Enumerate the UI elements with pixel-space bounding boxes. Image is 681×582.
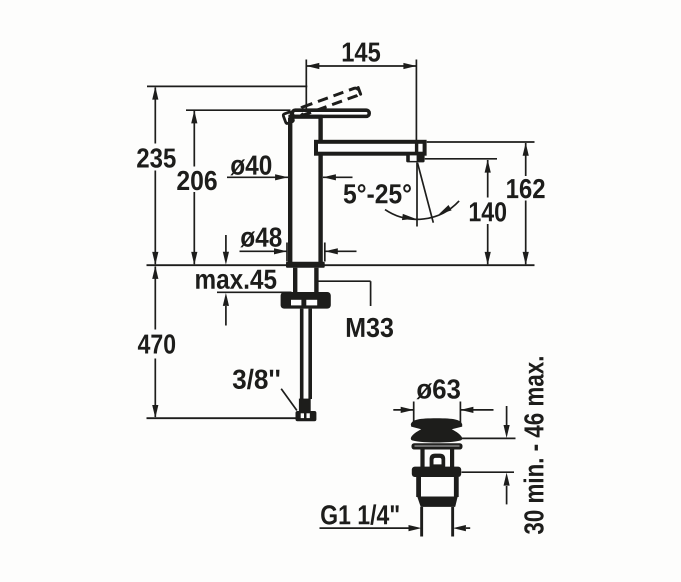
label 145	[343, 43, 380, 62]
dimension 30min-46max line	[504, 406, 510, 504]
label 3/8 inch	[233, 369, 280, 389]
hose end fitting	[299, 399, 311, 412]
3/8 inch leader line	[281, 389, 297, 411]
M33 leader line	[317, 281, 371, 306]
drain flange band	[412, 443, 463, 449]
spout angle vertical reference	[416, 163, 418, 227]
dimension o48 line	[240, 248, 357, 254]
mounting nut	[281, 292, 331, 309]
drain cap (mushroom dome)	[411, 418, 462, 442]
label 470	[138, 334, 175, 353]
label 5-25 degrees	[344, 184, 411, 203]
handle base bar (top of cartridge)	[288, 115, 322, 119]
drain reference line upper (cap underside)	[461, 437, 516, 439]
dimension o63 extension lines	[414, 402, 461, 425]
label o48	[240, 227, 281, 247]
spout end divider	[415, 142, 418, 154]
dimension 470 line	[152, 266, 158, 418]
supply pipe	[300, 309, 312, 399]
label 235	[137, 148, 176, 168]
label o63	[416, 379, 460, 399]
dimension 235 line	[152, 87, 158, 265]
dimension 140 line	[485, 160, 491, 265]
faucet body column right edge	[318, 116, 322, 264]
faucet handle lever (dashed, raised position)	[299, 87, 360, 116]
3/8 inch connector	[296, 411, 317, 421]
handle pivot nub	[283, 112, 294, 124]
reference line 206 (top of lever)	[186, 109, 291, 111]
dimension G1 1/4 line	[320, 525, 471, 531]
mounting shank right	[314, 268, 318, 294]
dimension 206 line	[191, 110, 197, 265]
dimension 162 line	[523, 143, 529, 265]
drain threaded body walls	[416, 477, 458, 497]
faucet handle lever (solid, horizontal position)	[292, 110, 369, 116]
spout outlet nub	[406, 154, 424, 163]
drain taper band	[417, 497, 458, 507]
reference line 235 (top of raised lever)	[147, 85, 307, 87]
dimension o40 line	[227, 174, 353, 180]
dimension max.45 arrows	[223, 235, 229, 326]
label 206	[177, 171, 216, 190]
mounting shank left	[293, 268, 297, 294]
drain reference line lower (flange top)	[462, 471, 515, 473]
drain tailpipe walls	[420, 507, 454, 537]
bottom reference line (hose end)	[147, 417, 296, 419]
counter reference line	[147, 264, 535, 266]
dimension 145 extension lines	[306, 60, 416, 142]
label 162	[507, 179, 544, 198]
spout angle arc	[385, 201, 459, 220]
faucet body column left edge	[288, 118, 292, 264]
max.45 reference line	[217, 291, 292, 293]
spout (horizontal)	[316, 142, 425, 154]
label M33	[347, 318, 393, 338]
label 140	[470, 202, 506, 221]
label 30min-46max	[523, 357, 543, 534]
reference line 140 (outlet)	[425, 158, 497, 160]
drain arch (open slot)	[430, 454, 446, 469]
reference line 162 (spout top)	[427, 141, 535, 143]
drain neck bars	[420, 449, 454, 468]
dimension o48 extension lines	[287, 243, 325, 262]
dimension 145 line	[306, 63, 416, 69]
label o40	[230, 155, 271, 175]
spout tilted position line	[418, 163, 434, 223]
faucet base plate	[286, 262, 325, 268]
dimension o63 line	[393, 407, 493, 413]
drain lower flange	[412, 467, 461, 477]
label G1 1/4	[321, 504, 399, 524]
label max.45	[196, 270, 276, 289]
